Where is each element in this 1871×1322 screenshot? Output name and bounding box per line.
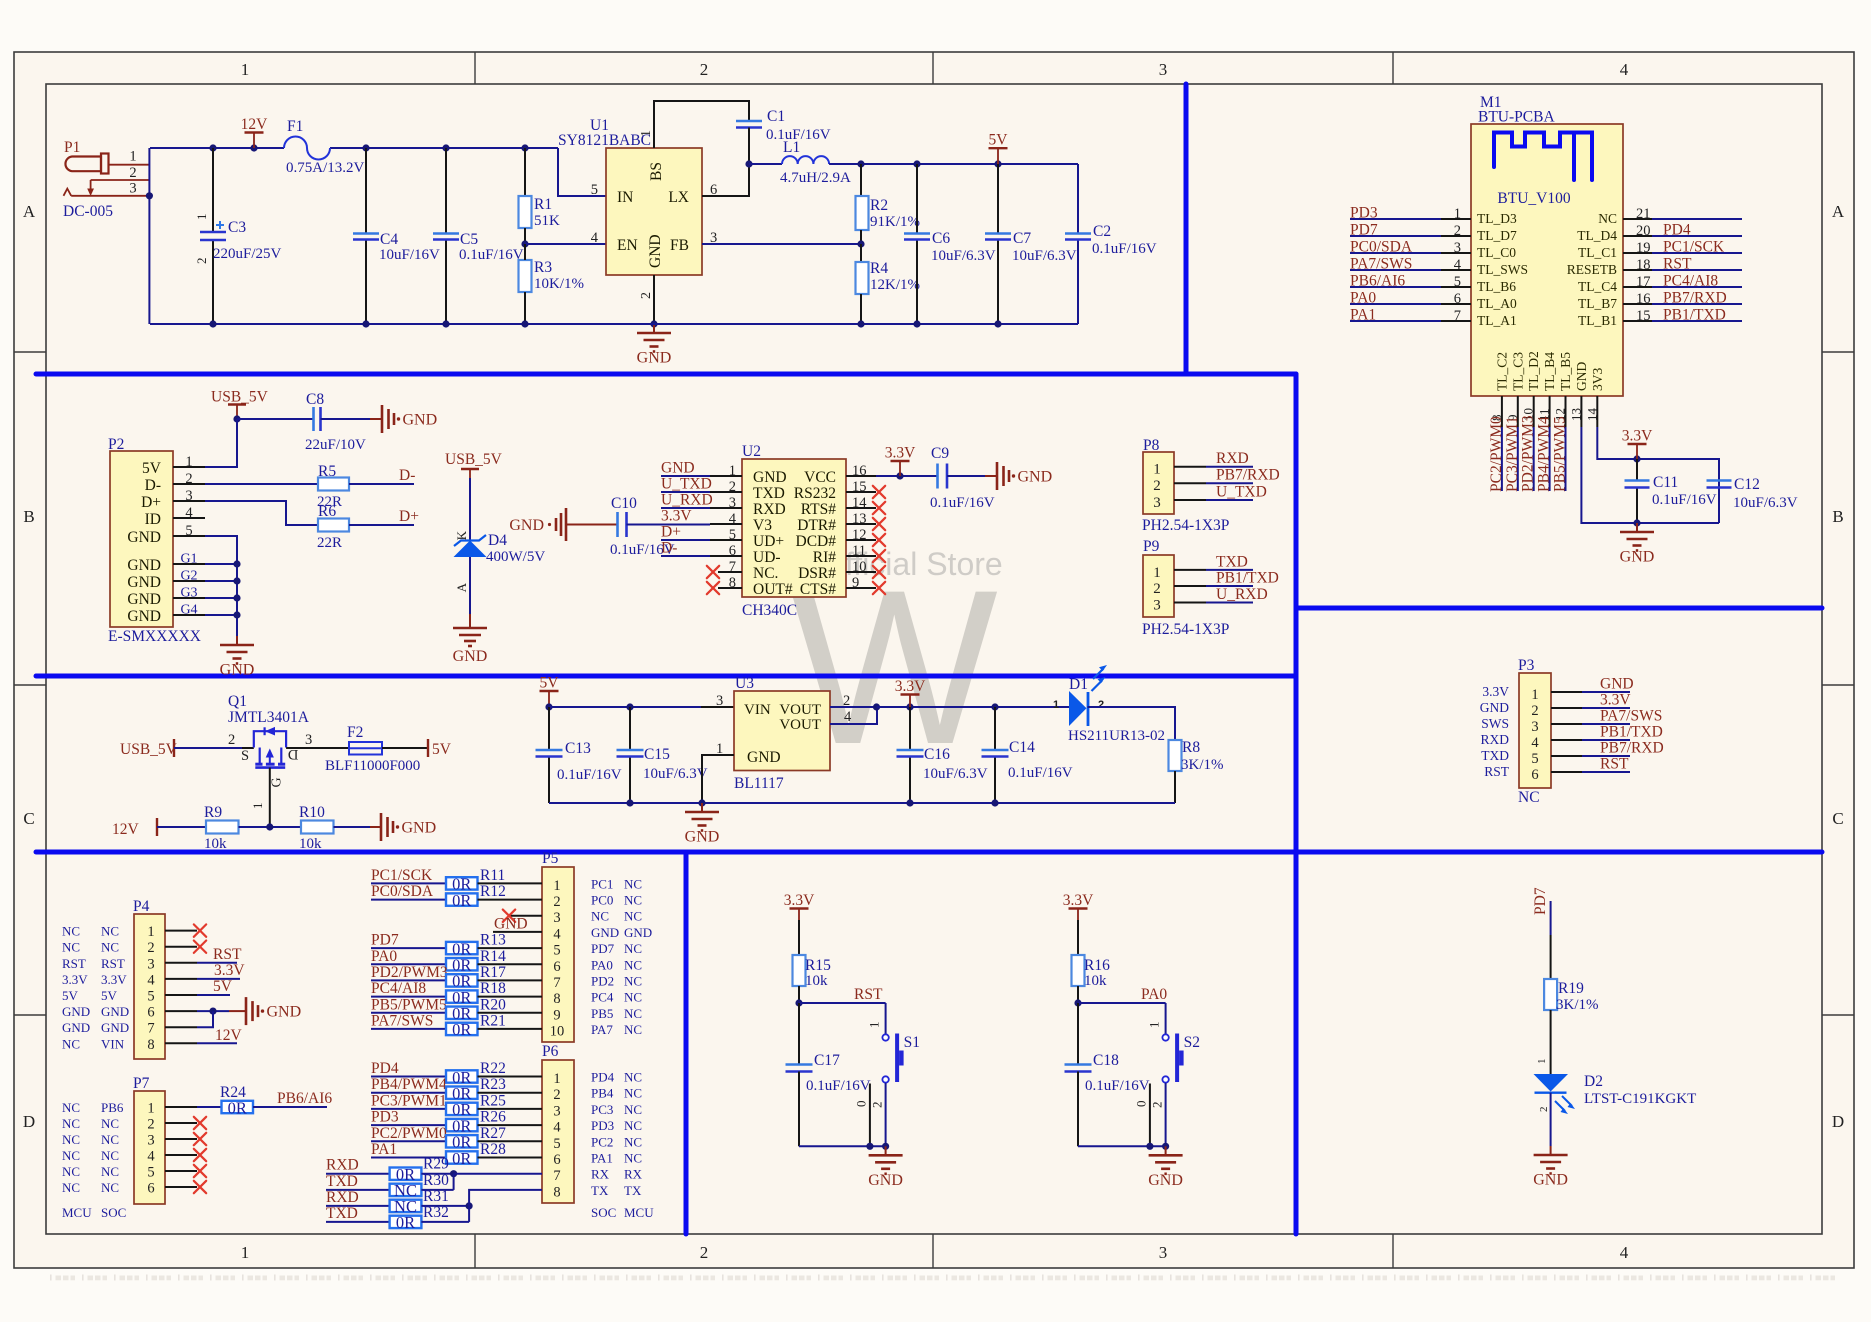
svg-text:VOUT: VOUT (779, 702, 821, 718)
svg-text:5V: 5V (540, 675, 560, 692)
svg-text:G: G (270, 777, 285, 787)
resistor R5 (318, 478, 349, 491)
wire node to P6 pin8 (469, 1190, 542, 1222)
svg-text:0.1uF/16V: 0.1uF/16V (806, 1078, 871, 1094)
junction 3V3 node (1633, 455, 1640, 462)
wire Q1 D to F2 (286, 747, 349, 749)
capacitor C11 (1636, 459, 1638, 481)
wire S2 cap branch (1077, 1003, 1079, 1065)
svg-text:LTST-C191KGKT: LTST-C191KGKT (1584, 1091, 1696, 1107)
svg-text:TL_A1: TL_A1 (1477, 313, 1517, 328)
U2 pin 2 (710, 491, 742, 493)
P2 pin 3 (173, 500, 205, 502)
junction C6 top (913, 160, 920, 167)
svg-text:PA7/SWS: PA7/SWS (1600, 708, 1662, 725)
svg-text:TXD: TXD (1216, 553, 1248, 570)
svg-text:GND: GND (1574, 362, 1589, 391)
svg-text:NC: NC (624, 1151, 642, 1166)
svg-text:NC: NC (101, 924, 119, 939)
junction 3.3V tap (906, 703, 913, 710)
svg-text:GND: GND (509, 517, 544, 534)
svg-text:2: 2 (700, 1243, 709, 1262)
svg-text:2: 2 (1098, 699, 1104, 711)
M1 left pin 3 PC0/SDA (1441, 252, 1471, 254)
resistor R4 (860, 244, 862, 262)
wire C9 to gnd (947, 475, 985, 477)
ground S2 (1165, 1146, 1167, 1155)
ground P4 (245, 997, 248, 1025)
svg-text:1: 1 (250, 803, 265, 810)
svg-text:D: D (23, 1112, 35, 1131)
capacitor C15 (629, 707, 631, 750)
wire D4 bottom (469, 557, 471, 614)
svg-text:GND: GND (127, 557, 161, 574)
svg-text:IN: IN (617, 189, 633, 206)
P2 pin G2 (173, 580, 205, 582)
svg-text:PC4: PC4 (591, 990, 614, 1005)
M1 right pin 19 (1623, 252, 1652, 254)
junction gnd node M1 (1633, 519, 1640, 526)
svg-text:RST: RST (1600, 756, 1629, 773)
svg-text:USB_5V: USB_5V (120, 741, 178, 758)
svg-text:D-: D- (661, 540, 677, 557)
svg-text:PA7/SWS: PA7/SWS (1350, 256, 1412, 273)
svg-text:TX: TX (624, 1183, 642, 1198)
capacitor C10 (616, 512, 619, 537)
junction 5V C13 (545, 703, 552, 710)
svg-text:3.3V: 3.3V (101, 972, 127, 987)
U2 pin 11 (846, 555, 876, 557)
U2 pin 3 (710, 507, 742, 509)
svg-text:C18: C18 (1093, 1052, 1119, 1069)
svg-text:TL_C0: TL_C0 (1477, 245, 1516, 260)
ground R10 (380, 813, 383, 841)
svg-text:2: 2 (1538, 1107, 1550, 1113)
wire 5V rail to U3 (549, 706, 701, 708)
svg-text:0.1uF/16V: 0.1uF/16V (1085, 1078, 1150, 1094)
resistor R2 (860, 164, 862, 196)
svg-text:RX: RX (624, 1167, 643, 1182)
svg-text:EN: EN (617, 237, 638, 254)
wire P2 pin1 to USB_5V (205, 419, 237, 467)
section divider right M1/P3 (1296, 606, 1822, 611)
M1 right pin 21 (1623, 218, 1652, 220)
svg-text:0R: 0R (452, 891, 471, 910)
svg-text:SOC: SOC (101, 1205, 126, 1220)
svg-text:C: C (1832, 809, 1843, 828)
wire net PA0 (1078, 1002, 1166, 1004)
svg-text:R31: R31 (423, 1188, 449, 1205)
svg-text:R1: R1 (534, 196, 552, 213)
svg-text:PC1: PC1 (591, 876, 613, 891)
svg-text:PC0/SDA: PC0/SDA (1350, 239, 1413, 256)
svg-text:PD4: PD4 (591, 1070, 615, 1085)
svg-text:6: 6 (729, 543, 736, 559)
svg-text:GND: GND (647, 234, 664, 268)
svg-text:G1: G1 (180, 552, 197, 567)
svg-text:TX: TX (591, 1183, 609, 1198)
P4 pin2 X (194, 941, 206, 953)
U2 pin 15 (846, 491, 876, 493)
svg-text:21: 21 (1636, 206, 1651, 222)
svg-text:D2: D2 (1584, 1073, 1603, 1090)
svg-text:PC4/AI8: PC4/AI8 (1663, 273, 1718, 290)
wire S1 gnd rail (799, 1145, 886, 1147)
svg-text:1: 1 (1531, 687, 1538, 703)
svg-text:3.3V: 3.3V (661, 508, 692, 525)
svg-text:2: 2 (553, 1087, 560, 1103)
svg-text:GND: GND (624, 925, 652, 940)
svg-text:JMTL3401A: JMTL3401A (228, 709, 310, 726)
svg-text:PD7: PD7 (1350, 222, 1378, 239)
svg-text:2: 2 (729, 479, 736, 495)
junction gate node (266, 823, 273, 830)
svg-text:R16: R16 (1084, 957, 1110, 974)
svg-text:D-: D- (399, 467, 415, 484)
P1 pin 2 (91, 179, 150, 181)
svg-text:P7: P7 (133, 1075, 150, 1092)
svg-text:A: A (454, 582, 469, 592)
svg-text:3: 3 (716, 693, 723, 709)
resistor R6 (318, 519, 349, 532)
svg-text:4: 4 (147, 1149, 155, 1165)
junction C5 top (442, 144, 449, 151)
svg-text:C: C (23, 809, 34, 828)
svg-text:4: 4 (553, 926, 561, 942)
P2 pin G4 (173, 614, 205, 616)
svg-text:12: 12 (852, 527, 867, 543)
svg-text:NC: NC (624, 1118, 642, 1133)
svg-text:TL_B6: TL_B6 (1477, 279, 1516, 294)
capacitor C3 (212, 148, 214, 232)
svg-text:D-: D- (145, 477, 161, 494)
svg-text:A: A (1832, 202, 1845, 221)
svg-text:1: 1 (241, 1243, 250, 1262)
svg-text:V3: V3 (753, 517, 772, 534)
junction R2 top (857, 160, 864, 167)
svg-text:4: 4 (844, 709, 852, 725)
wire PD7 to R19 (1550, 901, 1552, 935)
wire R24 to PB6/AI6 (253, 1106, 327, 1108)
svg-text:P6: P6 (542, 1043, 559, 1060)
svg-text:C2: C2 (1093, 223, 1111, 240)
svg-text:TL_C3: TL_C3 (1510, 352, 1525, 391)
svg-text:R10: R10 (299, 804, 325, 821)
svg-text:15: 15 (852, 479, 867, 495)
svg-text:10k: 10k (204, 836, 227, 852)
svg-text:3.3V: 3.3V (1600, 692, 1631, 709)
junction USB_5V node (233, 415, 240, 422)
wire R10 to gnd (334, 826, 371, 828)
svg-text:DTR#: DTR# (797, 517, 836, 534)
svg-text:1: 1 (185, 454, 192, 470)
svg-text:16: 16 (852, 463, 867, 479)
svg-text:8: 8 (729, 575, 736, 591)
svg-text:R5: R5 (318, 463, 336, 480)
IC U2 box (742, 459, 846, 597)
power port 3.3V S2 (1069, 907, 1088, 909)
svg-text:17: 17 (1636, 274, 1651, 290)
LED D1 (1069, 691, 1087, 726)
wire P1 vertical (148, 148, 150, 324)
svg-text:3: 3 (1153, 598, 1161, 614)
svg-text:R19: R19 (1558, 980, 1584, 997)
frame row ticks (14, 351, 46, 353)
svg-text:RST: RST (101, 956, 125, 971)
svg-text:F2: F2 (347, 724, 363, 741)
svg-text:3.3V: 3.3V (885, 445, 916, 462)
svg-text:NC: NC (624, 1102, 642, 1117)
U2 pin 8 (718, 587, 742, 589)
svg-text:1: 1 (147, 924, 154, 940)
svg-text:0.75A/13.2V: 0.75A/13.2V (286, 160, 365, 176)
svg-text:PA0: PA0 (1350, 290, 1376, 307)
junction R29 node (450, 1170, 457, 1177)
wire 3.3V rail (877, 706, 1070, 708)
svg-text:3: 3 (553, 1103, 560, 1119)
ground P2 (236, 636, 238, 645)
svg-text:SY8121BABC: SY8121BABC (558, 132, 651, 149)
connector P3 box (1519, 673, 1551, 788)
svg-text:TL_D7: TL_D7 (1477, 228, 1517, 243)
P1 pin 2 arrow (90, 180, 92, 190)
svg-text:PD7: PD7 (591, 941, 615, 956)
svg-text:4: 4 (553, 1120, 561, 1136)
svg-text:TL_A0: TL_A0 (1477, 296, 1517, 311)
wire S2 bottom (1165, 1083, 1167, 1146)
svg-text:400W/5V: 400W/5V (486, 549, 545, 565)
junction S2 gnd dots (1146, 1143, 1153, 1150)
svg-text:9: 9 (553, 1007, 560, 1023)
capacitor C6 (916, 164, 918, 234)
svg-text:3.3V: 3.3V (62, 972, 88, 987)
svg-text:USB_5V: USB_5V (445, 451, 503, 468)
svg-text:PD2/PWM3: PD2/PWM3 (371, 964, 448, 981)
svg-text:1: 1 (1536, 1059, 1548, 1065)
svg-text:PD4: PD4 (371, 1060, 399, 1077)
P9 pin 3 (1174, 602, 1206, 604)
junction C4 top (362, 144, 369, 151)
svg-text:5: 5 (553, 943, 560, 959)
svg-text:10K/1%: 10K/1% (534, 276, 584, 292)
svg-text:5V: 5V (142, 460, 162, 477)
svg-text:PD7: PD7 (371, 932, 399, 949)
svg-text:1: 1 (1147, 1022, 1162, 1029)
P3 pin 1 (1551, 691, 1582, 693)
power port 12V (245, 131, 264, 133)
svg-text:3.3V: 3.3V (214, 962, 245, 979)
ground U1 (653, 324, 655, 333)
section divider horizontal A/B (36, 372, 1296, 377)
svg-text:10uF/6.3V: 10uF/6.3V (1733, 495, 1798, 511)
capacitor C17 (786, 1063, 813, 1066)
svg-text:19: 19 (1636, 240, 1651, 256)
svg-text:GND: GND (127, 574, 161, 591)
junction S1 node (795, 999, 802, 1006)
resistor R8 (1169, 740, 1182, 771)
P3 pin 2 (1551, 707, 1582, 709)
P1 pin 3 sleeve (64, 189, 72, 196)
inductor L1 (749, 163, 782, 165)
P5 pin4 GND net (493, 931, 542, 933)
section divider vertical x686 (684, 852, 689, 1234)
svg-text:3.3V: 3.3V (895, 678, 926, 695)
M1 bottom pin 14 (1596, 396, 1598, 427)
wire LX to L1 (749, 163, 762, 165)
svg-text:7: 7 (729, 559, 736, 575)
svg-text:10: 10 (550, 1023, 565, 1039)
svg-text:TL_D4: TL_D4 (1577, 228, 1617, 243)
svg-text:15: 15 (1636, 308, 1651, 324)
P5 pin3 X (509, 915, 542, 917)
svg-text:TL_C2: TL_C2 (1494, 352, 1509, 391)
svg-text:220uF/25V: 220uF/25V (213, 246, 282, 262)
svg-text:GND: GND (220, 662, 255, 679)
svg-text:2: 2 (639, 292, 654, 299)
P4 pin 5 (165, 994, 197, 996)
P4 pin7 wire (197, 1011, 213, 1027)
P2 pin G3 (173, 597, 205, 599)
P1 pin 1 (109, 164, 150, 166)
svg-text:PC2: PC2 (591, 1134, 613, 1149)
svg-text:NC: NC (624, 909, 642, 924)
svg-text:PD2: PD2 (591, 973, 614, 988)
svg-text:3: 3 (1159, 60, 1168, 79)
capacitor C14 (994, 707, 996, 750)
svg-text:R22: R22 (480, 1060, 506, 1077)
svg-text:GND: GND (1533, 1172, 1568, 1189)
wire net RST (799, 1002, 886, 1004)
svg-text:C3: C3 (228, 219, 246, 236)
diode D4 zener (454, 535, 486, 546)
svg-text:PB6/AI6: PB6/AI6 (277, 1090, 332, 1107)
section divider vertical top x1186 (1184, 84, 1189, 374)
junction FB node (857, 240, 864, 247)
capacitor C2 (1077, 164, 1079, 234)
ground C8 (381, 405, 384, 433)
svg-text:3.3V: 3.3V (784, 892, 815, 909)
junction dots bottom rail (209, 320, 216, 327)
svg-text:6: 6 (553, 959, 560, 975)
svg-text:NC: NC (62, 924, 80, 939)
svg-text:NC: NC (624, 1086, 642, 1101)
wire U3 vout (830, 706, 876, 708)
P2 pin 4 (173, 517, 205, 519)
svg-text:RST: RST (62, 956, 86, 971)
svg-text:R4: R4 (870, 260, 888, 277)
svg-text:G3: G3 (180, 586, 197, 601)
svg-text:RST: RST (213, 946, 242, 963)
svg-text:PD3: PD3 (371, 1109, 399, 1126)
svg-text:PB5/PWM5: PB5/PWM5 (1552, 416, 1569, 492)
svg-text:RXD: RXD (1216, 450, 1249, 467)
svg-text:GND: GND (127, 608, 161, 625)
svg-text:G2: G2 (180, 569, 197, 584)
svg-text:0: 0 (854, 1101, 869, 1108)
svg-text:1: 1 (147, 1101, 154, 1117)
wire 5V rail (829, 163, 1078, 165)
wire gnd to C10 (566, 524, 617, 526)
svg-text:10k: 10k (1084, 973, 1107, 989)
svg-text:6: 6 (553, 1152, 560, 1168)
svg-text:9: 9 (852, 575, 859, 591)
svg-text:U_TXD: U_TXD (661, 476, 712, 493)
svg-text:PD7: PD7 (1532, 887, 1549, 915)
wire D1 to R8 (1088, 707, 1176, 740)
svg-text:NC: NC (62, 940, 80, 955)
U2 pin 16 (846, 475, 876, 477)
svg-text:FB: FB (670, 237, 689, 254)
svg-text:22R: 22R (317, 535, 342, 551)
svg-text:5V: 5V (101, 988, 118, 1003)
svg-text:R18: R18 (480, 980, 506, 997)
svg-text:C15: C15 (644, 746, 670, 763)
op-amp U1 box (606, 148, 702, 275)
svg-text:NC: NC (624, 957, 642, 972)
svg-text:BTU_V100: BTU_V100 (1497, 190, 1570, 207)
svg-text:1: 1 (194, 214, 209, 221)
capacitor C1 (736, 120, 762, 123)
svg-text:GND: GND (127, 591, 161, 608)
svg-text:22uF/10V: 22uF/10V (305, 437, 366, 453)
svg-text:UD-: UD- (753, 549, 781, 566)
M1 left pin 4 PA7/SWS (1441, 269, 1471, 271)
connector P7 box (134, 1091, 165, 1204)
LED D2 arrows (1555, 1096, 1572, 1111)
connector P4 box (134, 914, 165, 1059)
P4 pin 7 (165, 1026, 197, 1028)
capacitor C8 (312, 407, 315, 431)
wire EN (525, 243, 606, 245)
svg-text:TL_B5: TL_B5 (1558, 352, 1573, 391)
svg-text:VOUT: VOUT (779, 717, 821, 733)
svg-text:3: 3 (147, 1133, 154, 1149)
svg-text:6: 6 (147, 1005, 154, 1021)
P4 pin 6 (165, 1010, 197, 1012)
svg-text:3.3V: 3.3V (1622, 428, 1653, 445)
svg-text:0R: 0R (396, 1213, 415, 1232)
svg-text:0.1uF/16V: 0.1uF/16V (557, 767, 622, 783)
svg-text:C14: C14 (1009, 739, 1035, 756)
svg-text:GND: GND (591, 925, 619, 940)
wire P2 pin3 jog (205, 501, 318, 525)
M1 right pin 16 (1623, 303, 1652, 305)
svg-text:C16: C16 (924, 746, 950, 763)
svg-text:NC: NC (624, 1134, 642, 1149)
svg-text:1: 1 (639, 130, 654, 137)
wire C10 to U2 pin4 (627, 524, 711, 526)
wire USB_5V to C8 (237, 418, 313, 420)
svg-text:10uF/6.3V: 10uF/6.3V (931, 248, 996, 264)
svg-text:5: 5 (147, 1165, 154, 1181)
svg-text:PB4/PWM4: PB4/PWM4 (1536, 416, 1553, 492)
svg-text:NC: NC (1598, 211, 1617, 226)
P7 pin 5 (165, 1170, 197, 1172)
U2 pin 14 (846, 507, 876, 509)
wire R8 down (1174, 771, 1176, 803)
svg-text:PD4: PD4 (1663, 222, 1691, 239)
svg-text:PB7/RXD: PB7/RXD (1600, 740, 1664, 757)
svg-text:RTS#: RTS# (801, 501, 836, 518)
svg-text:3: 3 (147, 956, 154, 972)
svg-text:12K/1%: 12K/1% (870, 277, 920, 293)
wire Q1 gate (269, 768, 271, 827)
svg-text:RI#: RI# (813, 549, 837, 566)
svg-text:PA7: PA7 (591, 1022, 613, 1037)
svg-text:PC2/PWM0: PC2/PWM0 (371, 1125, 447, 1142)
svg-text:13: 13 (1568, 408, 1583, 421)
wire U1 GND pin (653, 275, 655, 324)
